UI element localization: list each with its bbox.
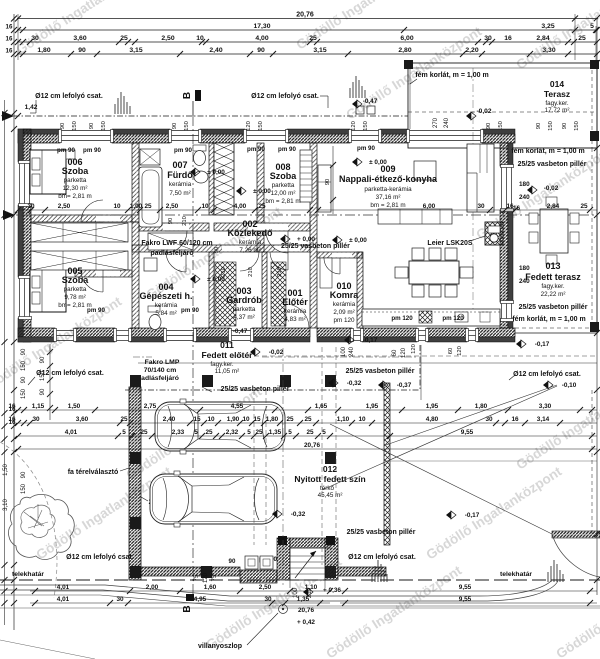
wall below chimney and 008 xyxy=(214,223,310,231)
wall left of room 004 xyxy=(132,222,139,328)
svg-text:30: 30 xyxy=(32,416,40,423)
svg-text:5: 5 xyxy=(122,429,126,436)
carport dimension row 2 xyxy=(8,416,597,426)
svg-text:2,00: 2,00 xyxy=(146,584,159,591)
svg-text:1,10: 1,10 xyxy=(337,416,350,423)
svg-text:3,30: 3,30 xyxy=(542,47,555,54)
svg-text:pm 120: pm 120 xyxy=(333,317,355,324)
svg-text:-0,47: -0,47 xyxy=(363,98,378,105)
house left exterior wall with windows xyxy=(18,129,32,342)
house top exterior wall with windows xyxy=(18,129,515,143)
svg-text:-0,17: -0,17 xyxy=(363,337,378,344)
left outer chain xyxy=(2,100,10,625)
svg-text:1,35: 1,35 xyxy=(269,429,282,436)
label drain center bottom xyxy=(348,554,416,561)
svg-text:1,80: 1,80 xyxy=(266,416,279,423)
axis line entry xyxy=(282,348,284,585)
svg-text:pm 90: pm 90 xyxy=(247,146,265,153)
svg-text:pm 90: pm 90 xyxy=(278,146,296,153)
rotated door dimension labels xyxy=(168,216,283,277)
svg-text:2,50: 2,50 xyxy=(259,584,272,591)
svg-text:4,00: 4,00 xyxy=(234,203,247,210)
svg-text:25: 25 xyxy=(120,35,128,42)
extension line window right xyxy=(472,68,474,310)
svg-text:12,30 m²: 12,30 m² xyxy=(63,185,88,192)
svg-text:45,45 m²: 45,45 m² xyxy=(318,492,343,499)
svg-text:Fürdő: Fürdő xyxy=(167,170,193,180)
left margin chain xyxy=(11,110,27,606)
room label 010 Komra xyxy=(330,281,360,324)
svg-text:30: 30 xyxy=(264,596,272,603)
svg-text:padlásfeljáró: padlásfeljáró xyxy=(137,375,179,382)
svg-text:90: 90 xyxy=(172,123,178,129)
svg-text:17,30: 17,30 xyxy=(253,23,270,30)
gutter marks bottom left xyxy=(372,560,387,582)
svg-text:-0,47: -0,47 xyxy=(233,328,248,335)
svg-text:90: 90 xyxy=(21,376,27,383)
svg-text:pm 120: pm 120 xyxy=(442,315,464,322)
level -0,47 wall xyxy=(233,328,248,335)
svg-text:1,50: 1,50 xyxy=(3,464,9,476)
room label 008 Szoba xyxy=(265,162,300,205)
svg-text:-0,02: -0,02 xyxy=(544,185,559,192)
label pillar 011 xyxy=(202,386,290,393)
level -0,32 top xyxy=(328,379,333,387)
svg-text:parketta: parketta xyxy=(233,306,256,313)
svg-text:150: 150 xyxy=(21,388,27,399)
svg-text:120: 120 xyxy=(203,572,209,583)
svg-text:6,00: 6,00 xyxy=(423,203,436,210)
section line A-A horizontal xyxy=(3,210,597,220)
svg-text:25/25 vasbeton pillér: 25/25 vasbeton pillér xyxy=(221,386,290,393)
car 2 top view xyxy=(150,471,277,527)
entry steps with arrow xyxy=(290,548,325,588)
kitchen sideboard room 009 xyxy=(378,209,452,224)
terrace 014 level mark xyxy=(433,108,492,128)
wall below corridor 002 xyxy=(132,245,310,252)
svg-text:75: 75 xyxy=(194,574,200,581)
washing machine room 007 xyxy=(140,149,160,165)
level -0,17 mid xyxy=(446,511,451,519)
left 16 labels xyxy=(8,406,16,426)
carport pillars xyxy=(130,375,336,578)
svg-text:Ø12 cm lefolyó csat.: Ø12 cm lefolyó csat. xyxy=(251,93,319,100)
wall between room 006 and 007 xyxy=(132,143,139,222)
door arc komra 010 xyxy=(324,258,340,274)
svg-text:90: 90 xyxy=(40,356,46,363)
svg-text:120: 120 xyxy=(351,121,357,131)
svg-text:B: B xyxy=(182,92,193,99)
terrace table with chairs xyxy=(529,197,579,264)
bins at entry xyxy=(245,556,273,569)
sofa room 009 xyxy=(467,144,494,212)
svg-text:120: 120 xyxy=(246,121,252,131)
svg-text:11,05 m²: 11,05 m² xyxy=(215,368,239,375)
svg-text:1,95: 1,95 xyxy=(426,403,439,410)
horizontal guide lines lower xyxy=(138,356,597,461)
svg-text:7,26 m²: 7,26 m² xyxy=(239,247,260,254)
svg-text:2,84: 2,84 xyxy=(536,35,549,42)
svg-text:Ø12 cm lefolyó csat.: Ø12 cm lefolyó csat. xyxy=(348,554,416,561)
svg-text:15: 15 xyxy=(253,416,261,423)
svg-text:10: 10 xyxy=(201,203,209,210)
svg-text:4,95: 4,95 xyxy=(194,596,207,603)
svg-text:3,25: 3,25 xyxy=(541,23,554,30)
svg-text:3,15: 3,15 xyxy=(313,47,326,54)
level mark 008 xyxy=(236,187,241,195)
wall stub corridor right xyxy=(257,215,264,252)
svg-text:fagy.ker.: fagy.ker. xyxy=(541,283,565,290)
room label 004 Gépészeti xyxy=(139,282,192,317)
svg-text:150: 150 xyxy=(101,121,107,131)
svg-text:90: 90 xyxy=(325,179,331,185)
svg-text:9,55: 9,55 xyxy=(461,429,474,436)
svg-text:parketta: parketta xyxy=(64,177,87,184)
svg-text:16: 16 xyxy=(8,419,16,426)
chimney Leier LSK20S xyxy=(485,222,503,245)
level mark 009 top xyxy=(352,158,357,166)
svg-text:22,22 m²: 22,22 m² xyxy=(541,291,566,298)
svg-text:villanyoszlop: villanyoszlop xyxy=(198,643,242,650)
label pillar right xyxy=(346,368,415,375)
svg-text:20,76: 20,76 xyxy=(298,607,314,614)
svg-text:Leier LSK20S: Leier LSK20S xyxy=(427,240,472,247)
road kerb lines xyxy=(0,534,600,659)
svg-text:kerámia: kerámia xyxy=(155,302,178,309)
label Leier LSK20S xyxy=(427,236,485,247)
svg-text:Nappali-étkező-konyha: Nappali-étkező-konyha xyxy=(339,174,438,184)
svg-text:B: B xyxy=(182,605,193,612)
svg-text:210: 210 xyxy=(277,267,283,277)
svg-text:Szoba: Szoba xyxy=(62,275,89,285)
svg-text:270: 270 xyxy=(433,117,439,128)
tv cabinet room 009 xyxy=(318,165,331,212)
car 1 top view xyxy=(155,399,285,454)
svg-text:1,60: 1,60 xyxy=(204,584,217,591)
svg-text:4,80: 4,80 xyxy=(426,416,439,423)
svg-text:100: 100 xyxy=(341,346,347,357)
svg-text:210: 210 xyxy=(307,587,313,598)
pm window sill labels xyxy=(57,145,464,565)
svg-text:± 0,00: ± 0,00 xyxy=(349,237,367,244)
level -0,37 top xyxy=(378,381,383,389)
interior dimension row xyxy=(15,203,597,213)
svg-text:fagy.ker.: fagy.ker. xyxy=(210,361,234,368)
built-in wardrobe lower xyxy=(31,251,128,270)
svg-text:4,01: 4,01 xyxy=(57,596,70,603)
svg-text:2,84: 2,84 xyxy=(547,203,560,210)
komra right wall xyxy=(357,252,363,328)
label fa terelvalaszto xyxy=(68,468,129,476)
level -0,02 porch xyxy=(250,348,255,356)
svg-text:bm = 2,81 m: bm = 2,81 m xyxy=(265,198,300,205)
svg-text:parketta: parketta xyxy=(272,182,295,189)
chimney shaft crosshatched xyxy=(214,143,234,215)
door arc room 003 xyxy=(240,252,259,271)
bottom dimension row 1 xyxy=(30,584,597,594)
terrace 014 outline and pillars xyxy=(404,60,599,148)
level mark corridor xyxy=(280,235,285,243)
svg-text:Fedett előtér: Fedett előtér xyxy=(201,350,253,360)
svg-text:30: 30 xyxy=(116,596,124,603)
svg-text:Ø12 cm lefolyó csat.: Ø12 cm lefolyó csat. xyxy=(35,93,103,100)
wall between 004 and 003 xyxy=(209,252,214,328)
svg-text:120: 120 xyxy=(401,347,407,358)
svg-text:240: 240 xyxy=(519,278,530,285)
svg-text:+ 0,42: + 0,42 xyxy=(297,619,315,626)
svg-text:Ø12 cm lefolyó csat.: Ø12 cm lefolyó csat. xyxy=(513,371,581,378)
svg-text:25/25 vasbeton pillér: 25/25 vasbeton pillér xyxy=(346,368,415,375)
svg-text:bm = 2,81 m: bm = 2,81 m xyxy=(370,202,405,209)
dining table with chairs xyxy=(395,248,473,297)
svg-text:240: 240 xyxy=(444,117,450,128)
svg-text:25/25 vasbeton pillér: 25/25 vasbeton pillér xyxy=(347,529,416,536)
svg-text:padlásfeljáró: padlásfeljáró xyxy=(150,250,193,257)
svg-text:014: 014 xyxy=(550,79,564,89)
svg-text:25/25 vasbeton pillér: 25/25 vasbeton pillér xyxy=(519,304,588,311)
svg-text:25: 25 xyxy=(578,35,586,42)
svg-text:150: 150 xyxy=(363,121,369,131)
svg-text:4,01: 4,01 xyxy=(65,429,78,436)
svg-text:150: 150 xyxy=(72,121,78,131)
svg-text:± 0,00: ± 0,00 xyxy=(369,159,387,166)
svg-text:Fakro LWF 60/120 cm: Fakro LWF 60/120 cm xyxy=(141,240,212,247)
svg-text:16: 16 xyxy=(6,48,13,55)
svg-text:16: 16 xyxy=(504,35,512,42)
svg-text:3,10: 3,10 xyxy=(3,499,9,511)
vertical chain x50 xyxy=(40,344,53,420)
svg-text:2,40: 2,40 xyxy=(163,416,176,423)
svg-text:150: 150 xyxy=(21,483,27,494)
roof eaves dashed line with arrow xyxy=(2,104,408,121)
svg-text:012: 012 xyxy=(323,464,337,474)
svg-text:2,40: 2,40 xyxy=(209,47,222,54)
wardrobe room 003 xyxy=(215,262,236,326)
carport dimension row 1 xyxy=(8,403,597,413)
rotated dims below wall right xyxy=(411,344,463,356)
svg-text:30: 30 xyxy=(31,35,39,42)
svg-text:± 0,00: ± 0,00 xyxy=(207,276,225,283)
bed room 006 xyxy=(30,150,75,194)
gutter marks center xyxy=(350,76,365,98)
label Fakro LWF xyxy=(141,240,212,257)
svg-text:7,50 m²: 7,50 m² xyxy=(169,190,190,197)
bottom overall dims xyxy=(297,587,341,626)
svg-text:1,15: 1,15 xyxy=(32,403,45,410)
svg-text:pm 90: pm 90 xyxy=(87,307,105,314)
tree xyxy=(0,442,74,598)
svg-text:90: 90 xyxy=(89,123,95,129)
room label 009 Nappali xyxy=(339,164,438,209)
svg-text:bm= 2,81 m: bm= 2,81 m xyxy=(58,193,91,200)
svg-text:2,33: 2,33 xyxy=(172,429,185,436)
svg-text:011: 011 xyxy=(220,340,234,350)
svg-text:-0,37: -0,37 xyxy=(397,382,412,389)
wall left of room 008 xyxy=(257,143,264,215)
room label 014 Terasz xyxy=(544,79,570,114)
svg-text:25: 25 xyxy=(286,416,294,423)
svg-text:120: 120 xyxy=(457,346,463,356)
porch guide lines and rotated dims xyxy=(133,345,421,400)
bottom dimension row 2 xyxy=(30,596,597,606)
room label 005 Szoba xyxy=(58,266,91,309)
svg-text:90: 90 xyxy=(60,123,66,129)
svg-text:150: 150 xyxy=(21,360,27,371)
svg-text:5: 5 xyxy=(590,23,594,30)
carport bottom low wall and entry walls xyxy=(141,536,386,583)
wall between room 008-001 and 009 xyxy=(310,143,317,328)
attic ladder hatch corridor xyxy=(148,233,193,250)
svg-text:-0,02: -0,02 xyxy=(476,108,491,115)
label drain left bottom xyxy=(66,554,134,561)
door arc room 001 xyxy=(270,252,288,270)
section marker B top xyxy=(182,90,201,116)
svg-text:1,50: 1,50 xyxy=(68,403,81,410)
wall below room 006 xyxy=(31,215,132,222)
svg-text:4,00: 4,00 xyxy=(255,35,268,42)
built-in wardrobe upper xyxy=(31,223,128,242)
svg-text:kerámia: kerámia xyxy=(284,308,307,315)
svg-text:90: 90 xyxy=(168,218,174,224)
svg-text:2,50: 2,50 xyxy=(58,203,71,210)
svg-text:pm 90: pm 90 xyxy=(357,145,375,152)
svg-text:4,37 m²: 4,37 m² xyxy=(233,314,254,321)
svg-text:240: 240 xyxy=(349,346,355,357)
svg-text:kerámia: kerámia xyxy=(169,181,192,188)
boiler and wc room 004 xyxy=(144,258,161,330)
svg-text:3,14: 3,14 xyxy=(537,416,550,423)
svg-text:2,09 m²: 2,09 m² xyxy=(333,309,354,316)
svg-text:90: 90 xyxy=(40,388,46,395)
svg-text:pm 120: pm 120 xyxy=(391,315,413,322)
svg-text:-0,10: -0,10 xyxy=(562,382,577,389)
door arc room 005 xyxy=(81,270,103,292)
carport left wall hatched xyxy=(129,387,141,580)
level -0,32 carport xyxy=(272,510,277,518)
house right exterior wall with windows xyxy=(500,143,514,328)
svg-text:240: 240 xyxy=(519,194,530,201)
svg-text:-0,32: -0,32 xyxy=(347,380,362,387)
svg-text:fém korlát, m = 1,00 m: fém korlát, m = 1,00 m xyxy=(415,72,488,79)
svg-text:5: 5 xyxy=(288,429,292,436)
svg-text:pm 90: pm 90 xyxy=(174,147,192,154)
level -0,17 right xyxy=(516,340,521,348)
svg-text:30: 30 xyxy=(477,203,485,210)
door openings in interior walls xyxy=(96,216,352,277)
svg-text:+ 0,00: + 0,00 xyxy=(297,236,315,243)
fa terelvalaszto strip xyxy=(384,383,390,545)
bathtub room 007 xyxy=(139,167,162,227)
svg-text:25: 25 xyxy=(580,203,588,210)
label Fakro LMP xyxy=(137,359,180,382)
door arc room 008 xyxy=(266,231,288,253)
svg-text:60: 60 xyxy=(448,348,454,354)
svg-text:150: 150 xyxy=(258,121,264,131)
room label 003 Gardrób xyxy=(226,286,262,321)
svg-text:150: 150 xyxy=(574,121,580,131)
carport dimension row 3 xyxy=(15,429,597,439)
svg-text:007: 007 xyxy=(172,160,187,170)
svg-text:90: 90 xyxy=(229,558,236,565)
svg-text:120: 120 xyxy=(411,344,417,354)
svg-text:4,55: 4,55 xyxy=(231,403,244,410)
svg-text:Gardrób: Gardrób xyxy=(226,295,262,305)
level mark 009 xyxy=(332,236,337,244)
svg-text:Fedett terasz: Fedett terasz xyxy=(525,272,581,282)
svg-text:25/25 vasbeton pillér: 25/25 vasbeton pillér xyxy=(281,243,350,250)
svg-text:parketta: parketta xyxy=(64,286,87,293)
svg-text:16: 16 xyxy=(6,24,13,31)
svg-text:16: 16 xyxy=(513,205,521,212)
svg-text:25: 25 xyxy=(144,203,152,210)
room label 002 Közlekedő xyxy=(227,219,273,254)
svg-text:3,15: 3,15 xyxy=(129,47,142,54)
svg-text:20,76: 20,76 xyxy=(304,442,320,449)
roof hip diagonals xyxy=(322,385,557,534)
room label 011 Fedett előtér xyxy=(201,340,253,375)
svg-text:± 0,00: ± 0,00 xyxy=(207,169,225,176)
svg-text:9,78 m²: 9,78 m² xyxy=(64,294,85,301)
wardrobe room 001 xyxy=(271,262,286,326)
svg-text:90: 90 xyxy=(562,123,568,129)
carport dimension row 4 xyxy=(15,442,597,452)
svg-text:12,00 m²: 12,00 m² xyxy=(271,190,296,197)
svg-text:17,72 m²: 17,72 m² xyxy=(545,107,570,114)
svg-text:5: 5 xyxy=(247,429,251,436)
svg-text:2,50: 2,50 xyxy=(161,35,174,42)
level mark 006 xyxy=(190,168,195,176)
svg-text:pm 90: pm 90 xyxy=(83,147,101,154)
svg-text:fa térelválasztó: fa térelválasztó xyxy=(68,469,119,476)
dim chain room 009 left xyxy=(325,146,336,214)
wall right of room 007 xyxy=(209,143,214,215)
kitchen counter with stove and sink xyxy=(362,309,500,326)
svg-text:013: 013 xyxy=(545,261,560,271)
level -0,47 eaves xyxy=(352,98,378,108)
label drain center xyxy=(251,93,328,108)
svg-text:kerámia: kerámia xyxy=(333,301,356,308)
drain boxes center xyxy=(356,106,375,114)
room label 013 Fedett terasz xyxy=(525,261,581,298)
svg-text:5: 5 xyxy=(194,429,198,436)
svg-text:60: 60 xyxy=(392,349,398,356)
label drain left xyxy=(30,93,103,113)
svg-text:25: 25 xyxy=(255,429,263,436)
svg-text:fém korlát, m = 1,00 m: fém korlát, m = 1,00 m xyxy=(511,148,584,155)
rotated dims bottom center xyxy=(194,572,313,598)
svg-text:90: 90 xyxy=(21,348,27,355)
svg-text:90: 90 xyxy=(486,123,492,129)
svg-text:150: 150 xyxy=(548,121,554,131)
svg-text:1,80: 1,80 xyxy=(37,47,50,54)
svg-text:2,80: 2,80 xyxy=(398,47,411,54)
svg-text:25: 25 xyxy=(258,203,266,210)
svg-text:fagy.ker.: fagy.ker. xyxy=(545,100,569,107)
dimension extension lines xyxy=(18,14,596,60)
label pillar carport xyxy=(141,497,218,506)
room label 001 Előtér xyxy=(282,288,308,323)
level -0,10 corner xyxy=(543,381,548,389)
svg-text:1,80: 1,80 xyxy=(475,403,488,410)
label drain left middle xyxy=(28,370,104,385)
svg-text:15: 15 xyxy=(193,416,201,423)
svg-text:180: 180 xyxy=(519,181,530,188)
svg-text:30: 30 xyxy=(27,203,35,210)
svg-text:pm 90: pm 90 xyxy=(181,307,199,314)
washbasin and wc room 007 xyxy=(193,145,208,183)
svg-text:25: 25 xyxy=(306,429,314,436)
svg-text:Szoba: Szoba xyxy=(270,171,297,181)
